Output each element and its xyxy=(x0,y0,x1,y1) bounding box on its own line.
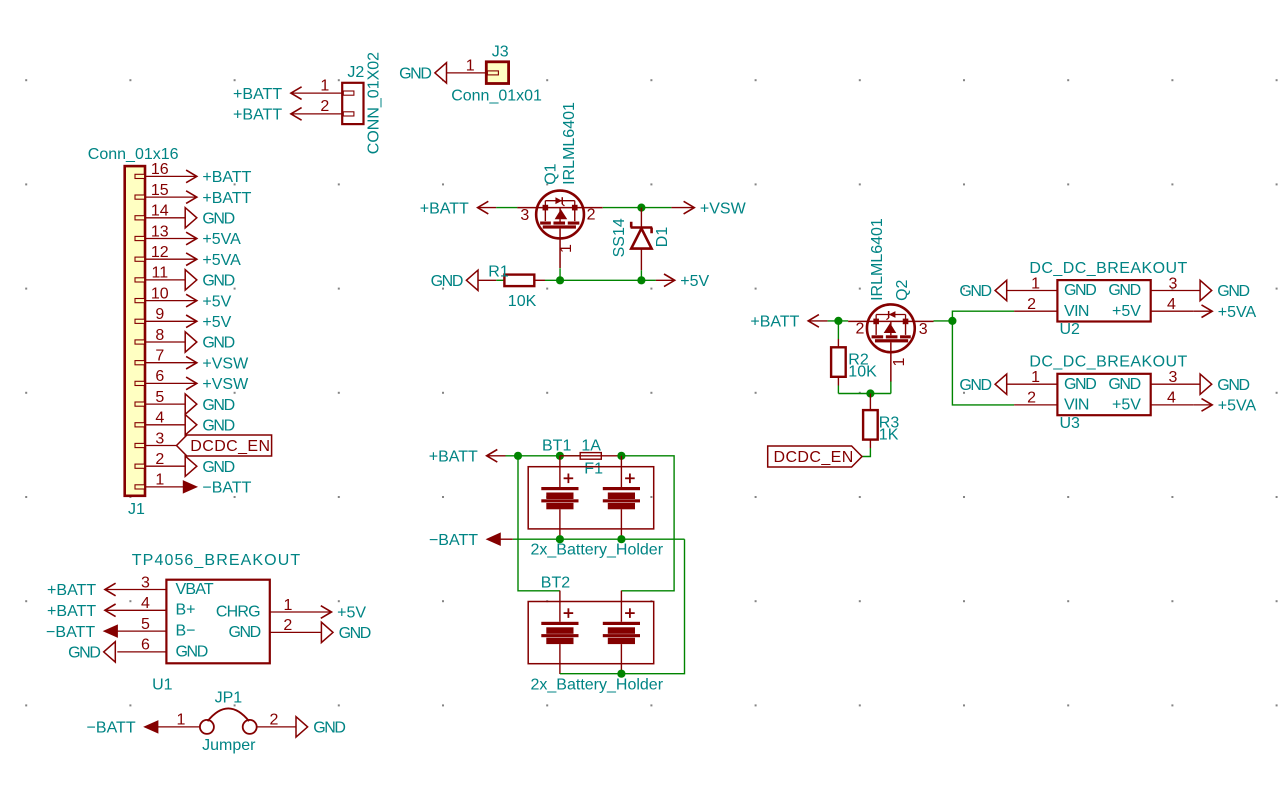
svg-text:GND: GND xyxy=(202,273,234,290)
svg-text:GND: GND xyxy=(339,625,371,642)
svg-text:SS14: SS14 xyxy=(611,218,628,257)
U3 pin 3 xyxy=(1151,369,1200,386)
hierarchical label GND at J1 pin 2 xyxy=(185,456,234,476)
hierarchical label +BATT at J1 pin 15 xyxy=(186,190,252,207)
J1 pin 13 xyxy=(135,223,197,240)
wire +BATT down to BT2 left cell xyxy=(518,456,560,591)
J1 pin 3 xyxy=(135,430,177,447)
svg-text:6: 6 xyxy=(141,637,150,654)
svg-text:J2: J2 xyxy=(347,64,364,81)
svg-text:D1: D1 xyxy=(654,227,671,248)
svg-text:IRLML6401: IRLML6401 xyxy=(561,102,578,185)
wire -BATT rail xyxy=(513,538,685,540)
connector J2 (CONN_01X02) xyxy=(342,83,363,124)
wire R1 to +5V rail xyxy=(545,279,656,281)
fuse F1 xyxy=(560,453,621,460)
svg-text:2: 2 xyxy=(283,617,292,634)
J1 pin 4 xyxy=(135,410,185,427)
hierarchical label GND at J3 xyxy=(399,63,446,83)
hierarchical label +5VA at J1 pin 12 xyxy=(186,252,241,269)
J1 pin 7 xyxy=(135,348,197,365)
hierarchical label GND at R1 xyxy=(431,270,497,290)
svg-text:+VSW: +VSW xyxy=(202,376,249,393)
svg-text:J1: J1 xyxy=(128,501,145,518)
hierarchical label GND at U3 pin 3 xyxy=(1200,374,1249,394)
svg-text:GND: GND xyxy=(228,624,260,641)
svg-text:1: 1 xyxy=(891,358,908,367)
svg-text:8: 8 xyxy=(155,327,164,344)
svg-text:+BATT: +BATT xyxy=(750,314,799,331)
battery holder BT1 xyxy=(528,456,654,539)
svg-text:VIN: VIN xyxy=(1064,397,1089,414)
svg-text:1: 1 xyxy=(558,244,575,253)
svg-text:VBAT: VBAT xyxy=(176,581,214,598)
hierarchical label +5VA at U2 pin 4 xyxy=(1193,304,1256,321)
U1 pin 3 xyxy=(105,574,166,591)
wire D1 anode down xyxy=(640,270,642,280)
svg-text:Conn_01x01: Conn_01x01 xyxy=(451,88,542,105)
hierarchical label +BATT at battery bank xyxy=(429,449,506,466)
svg-text:+BATT: +BATT xyxy=(202,190,251,207)
svg-text:IRLML6401: IRLML6401 xyxy=(869,218,886,301)
junction at D1 anode / +5V xyxy=(637,276,645,284)
svg-text:+5VA: +5VA xyxy=(1218,398,1257,415)
pin wire U2 VIN xyxy=(1014,310,1057,312)
U3 pin names xyxy=(1064,376,1141,414)
wire R2 to R3 junction xyxy=(838,393,890,395)
hierarchical label +BATT at Q1 source xyxy=(420,200,496,217)
svg-text:GND: GND xyxy=(1064,282,1096,299)
svg-text:+BATT: +BATT xyxy=(233,107,282,124)
U2 pin names xyxy=(1064,282,1141,320)
svg-text:5: 5 xyxy=(155,389,164,406)
svg-text:+VSW: +VSW xyxy=(202,355,249,372)
svg-text:CHRG: CHRG xyxy=(216,604,260,621)
wire GND label to R1 xyxy=(496,279,504,281)
resistor R1 xyxy=(504,275,545,287)
svg-text:3: 3 xyxy=(155,430,164,447)
svg-text:U2: U2 xyxy=(1060,321,1081,338)
svg-text:R1: R1 xyxy=(488,263,509,280)
svg-text:3: 3 xyxy=(520,207,529,224)
svg-text:11: 11 xyxy=(151,265,168,282)
svg-text:−BATT: −BATT xyxy=(46,624,95,641)
wire +BATT to Q1 xyxy=(496,207,517,209)
svg-text:1: 1 xyxy=(177,712,186,729)
svg-text:TP4056_BREAKOUT: TP4056_BREAKOUT xyxy=(132,552,301,569)
resistor R2 xyxy=(831,321,846,394)
wire -BATT rail to BT2 bottom xyxy=(560,539,685,674)
svg-text:GND: GND xyxy=(431,273,463,290)
svg-text:7: 7 xyxy=(155,348,164,365)
svg-text:3: 3 xyxy=(1168,275,1177,292)
svg-text:2: 2 xyxy=(1027,390,1036,407)
svg-text:13: 13 xyxy=(151,223,169,240)
svg-text:10: 10 xyxy=(151,285,169,302)
U1 pin 2 xyxy=(270,617,322,634)
svg-text:+5V: +5V xyxy=(1112,303,1141,320)
svg-text:1K: 1K xyxy=(879,426,899,443)
svg-text:2: 2 xyxy=(270,712,279,729)
hierarchical label GND at U1 pin 2 xyxy=(321,622,370,642)
svg-text:2x_Battery_Holder: 2x_Battery_Holder xyxy=(531,676,664,693)
hierarchical label −BATT at U1 pin 5 xyxy=(46,624,117,641)
svg-text:GND: GND xyxy=(202,335,234,352)
U1 pin names xyxy=(176,581,261,660)
svg-text:GND: GND xyxy=(202,211,234,228)
svg-text:2: 2 xyxy=(155,451,164,468)
svg-text:1: 1 xyxy=(1031,369,1040,386)
svg-text:GND: GND xyxy=(1108,282,1140,299)
svg-text:B+: B+ xyxy=(176,602,196,619)
svg-text:DC_DC_BREAKOUT: DC_DC_BREAKOUT xyxy=(1029,260,1187,277)
svg-text:5: 5 xyxy=(141,616,150,633)
svg-text:1: 1 xyxy=(466,57,475,74)
junction +BATT rail / BT1 left cell xyxy=(556,452,564,460)
hierarchical label +5V at U1 pin 1 xyxy=(321,605,367,622)
hierarchical label +BATT at U1 pin 4 xyxy=(47,603,116,620)
svg-text:1: 1 xyxy=(284,597,293,614)
hierarchical label +VSW at J1 pin 6 xyxy=(186,376,249,393)
svg-text:1: 1 xyxy=(155,472,164,489)
svg-text:CONN_01X02: CONN_01X02 xyxy=(366,52,383,154)
svg-text:GND: GND xyxy=(202,418,234,435)
charger U1 TP4056_BREAKOUT xyxy=(166,580,269,664)
svg-text:J3: J3 xyxy=(492,43,509,60)
hierarchical label GND at J1 pin 8 xyxy=(185,332,234,352)
junction +BATT rail / BT1 right cell xyxy=(617,452,625,460)
junction Q2 drain node xyxy=(948,317,956,325)
hierarchical label GND at U2 pin 3 xyxy=(1200,280,1249,300)
svg-text:DCDC_EN: DCDC_EN xyxy=(774,449,854,466)
svg-text:+VSW: +VSW xyxy=(700,200,747,217)
wire Q1 drain to +VSW node xyxy=(603,207,672,209)
U3 pin 1 xyxy=(1006,369,1058,386)
svg-text:+5V: +5V xyxy=(202,314,231,331)
wire Q2 gate down xyxy=(890,381,892,393)
junction -BATT rail / BT1 right cell xyxy=(617,535,625,543)
svg-text:GND: GND xyxy=(959,377,991,394)
pin wire U3 VIN xyxy=(1014,404,1057,406)
svg-text:6: 6 xyxy=(155,368,164,385)
battery holder BT2 xyxy=(528,591,654,674)
svg-text:+BATT: +BATT xyxy=(420,200,469,217)
J1 pin 10 xyxy=(135,285,197,302)
hierarchical label -BATT at JP1 pin 1 xyxy=(87,720,158,737)
svg-text:U3: U3 xyxy=(1060,415,1081,432)
svg-text:+BATT: +BATT xyxy=(233,86,282,103)
J1 pin 1 xyxy=(135,472,183,489)
junction -BATT rail / BT1 left cell xyxy=(556,535,564,543)
svg-text:+5VA: +5VA xyxy=(202,252,241,269)
svg-text:2x_Battery_Holder: 2x_Battery_Holder xyxy=(531,542,664,559)
svg-text:1: 1 xyxy=(320,77,329,94)
J1 pin 5 xyxy=(135,389,185,406)
svg-text:−BATT: −BATT xyxy=(87,720,136,737)
svg-text:2: 2 xyxy=(855,321,864,338)
svg-text:GND: GND xyxy=(313,720,345,737)
hierarchical label GND at U1 pin 6 xyxy=(68,642,115,662)
svg-text:BT2: BT2 xyxy=(541,574,570,591)
svg-text:2: 2 xyxy=(320,98,329,115)
svg-text:4: 4 xyxy=(141,595,150,612)
wire Q2 node down to U3 VIN xyxy=(952,321,1014,405)
J1 pin 15 xyxy=(135,182,197,199)
svg-text:+5V: +5V xyxy=(680,273,709,290)
JP1 pin 2 xyxy=(257,712,296,729)
U1 pin 1 xyxy=(270,597,332,614)
hierarchical label GND at JP1 pin 2 xyxy=(296,717,345,737)
svg-text:10K: 10K xyxy=(848,363,877,380)
jumper JP1 xyxy=(200,708,257,734)
svg-text:10K: 10K xyxy=(508,293,537,310)
hierarchical label +BATT at J1 pin 16 xyxy=(186,169,252,186)
svg-text:+5V: +5V xyxy=(202,293,231,310)
U1 pin 5 xyxy=(117,616,166,633)
U2 pin 3 xyxy=(1151,275,1200,292)
svg-text:DC_DC_BREAKOUT: DC_DC_BREAKOUT xyxy=(1029,354,1187,371)
connector J1 (Conn_01x16) xyxy=(125,166,145,496)
J1 pin 12 xyxy=(135,244,197,261)
hierarchical label +5V at J1 pin 10 xyxy=(186,293,232,310)
hierarchical label GND at U2 pin 1 xyxy=(959,280,1006,300)
svg-text:2: 2 xyxy=(587,207,596,224)
hierarchical label +BATT at J2 pin 2 xyxy=(233,107,302,124)
hierarchical label GND at J1 pin 11 xyxy=(185,270,234,290)
svg-text:9: 9 xyxy=(155,306,164,323)
svg-text:+BATT: +BATT xyxy=(202,169,251,186)
hierarchical label +5VA at J1 pin 13 xyxy=(186,231,241,248)
junction +BATT rail / BT2 feed xyxy=(514,452,522,460)
J1 pin 8 xyxy=(135,327,185,344)
hierarchical label GND at J1 pin 14 xyxy=(185,208,234,228)
hierarchical label +5V at D1 anode xyxy=(656,273,710,290)
global label DCDC_EN at J1 pin 3 xyxy=(177,435,272,456)
connector J3 (Conn_01x01) xyxy=(486,62,508,84)
svg-text:GND: GND xyxy=(1108,376,1140,393)
U2 pin 4 xyxy=(1151,296,1194,313)
wire +BATT to Q2 xyxy=(828,320,849,322)
svg-text:GND: GND xyxy=(399,66,431,83)
svg-text:−BATT: −BATT xyxy=(429,532,478,549)
svg-text:12: 12 xyxy=(151,244,169,261)
transistor Q1 IRLML6401 xyxy=(517,191,602,268)
J1 pin 9 xyxy=(135,306,197,323)
U1 pin 6 xyxy=(117,637,166,654)
U3 pin 4 xyxy=(1151,390,1194,407)
svg-text:4: 4 xyxy=(1167,296,1176,313)
hierarchical label +BATT at Q2 xyxy=(750,314,827,331)
svg-text:Jumper: Jumper xyxy=(202,737,256,754)
DC-DC converter U3 xyxy=(1057,374,1150,415)
svg-text:14: 14 xyxy=(151,203,169,220)
svg-text:DCDC_EN: DCDC_EN xyxy=(190,438,270,455)
svg-text:GND: GND xyxy=(68,645,100,662)
svg-text:1: 1 xyxy=(1031,275,1040,292)
hierarchical label -BATT at J1 pin 1 xyxy=(183,480,251,497)
transistor Q2 IRLML6401 xyxy=(848,304,933,381)
U2 pin 1 xyxy=(1006,275,1058,292)
hierarchical label -BATT at battery bank xyxy=(429,532,513,549)
wire Q2 node to U2 VIN xyxy=(952,311,1014,321)
J1 pin 11 xyxy=(135,265,185,282)
junction at D1 cathode / +VSW xyxy=(637,204,645,212)
svg-text:15: 15 xyxy=(151,182,169,199)
U1 pin 4 xyxy=(105,595,166,612)
svg-text:+5V: +5V xyxy=(337,605,366,622)
J1 pin 16 xyxy=(135,161,197,178)
svg-text:3: 3 xyxy=(919,321,928,338)
hierarchical label +VSW xyxy=(671,200,746,217)
diode D1 SS14 xyxy=(631,208,653,271)
wire +BATT rail to BT2 right cell xyxy=(621,456,674,591)
svg-text:16: 16 xyxy=(151,161,169,178)
junction +BATT / R2 xyxy=(834,317,842,325)
J2 pin 1 xyxy=(291,77,354,95)
hierarchical label GND at J1 pin 4 xyxy=(185,415,234,435)
svg-text:3: 3 xyxy=(141,574,150,591)
svg-text:GND: GND xyxy=(1217,377,1249,394)
hierarchical label +BATT at U1 pin 3 xyxy=(47,582,116,599)
svg-text:−BATT: −BATT xyxy=(202,480,251,497)
svg-text:GND: GND xyxy=(176,643,208,660)
svg-text:4: 4 xyxy=(1167,390,1176,407)
svg-text:JP1: JP1 xyxy=(215,690,243,707)
svg-text:GND: GND xyxy=(202,397,234,414)
svg-text:BT1: BT1 xyxy=(542,437,571,454)
svg-text:GND: GND xyxy=(1064,376,1096,393)
svg-text:Q1: Q1 xyxy=(542,163,559,184)
hierarchical label GND at U3 pin 1 xyxy=(959,374,1006,394)
svg-text:+BATT: +BATT xyxy=(429,449,478,466)
svg-text:Q2: Q2 xyxy=(894,279,911,300)
wire Q1 gate down xyxy=(559,268,561,280)
svg-text:VIN: VIN xyxy=(1064,303,1089,320)
svg-text:4: 4 xyxy=(155,410,164,427)
svg-text:U1: U1 xyxy=(152,676,173,693)
svg-text:GND: GND xyxy=(959,283,991,300)
J1 pin 2 xyxy=(135,451,185,468)
J1 pin 6 xyxy=(135,368,197,385)
svg-text:+5V: +5V xyxy=(1112,397,1141,414)
svg-text:+5VA: +5VA xyxy=(1218,304,1257,321)
wire +BATT rail xyxy=(506,455,581,457)
wire Q2 drain to U2/U3 xyxy=(934,320,953,322)
J2 pin 2 xyxy=(291,98,354,116)
DC-DC converter U2 xyxy=(1057,280,1150,321)
svg-text:B−: B− xyxy=(176,623,196,640)
hierarchical label +VSW at J1 pin 7 xyxy=(186,355,249,372)
hierarchical label GND at J1 pin 5 xyxy=(185,394,234,414)
svg-text:+BATT: +BATT xyxy=(47,603,96,620)
hierarchical label +5VA at U3 pin 4 xyxy=(1193,398,1256,415)
hierarchical label +BATT at J2 pin 1 xyxy=(233,86,302,103)
svg-text:GND: GND xyxy=(1217,283,1249,300)
junction at Q1 gate / R1 xyxy=(556,276,564,284)
global label DCDC_EN at R3 xyxy=(768,446,862,467)
svg-text:+5VA: +5VA xyxy=(202,231,241,248)
wire R3 to DCDC_EN xyxy=(862,448,870,457)
resistor R3 xyxy=(863,394,878,449)
svg-text:GND: GND xyxy=(202,459,234,476)
J3 pin 1 xyxy=(446,57,498,75)
svg-text:F1: F1 xyxy=(584,460,603,477)
J1 pin 14 xyxy=(135,203,185,220)
hierarchical label +5V at J1 pin 9 xyxy=(186,314,232,331)
JP1 pin 1 xyxy=(158,712,200,729)
svg-text:2: 2 xyxy=(1027,296,1036,313)
junction R2/R3/gate xyxy=(866,389,874,397)
svg-text:1A: 1A xyxy=(581,437,601,454)
svg-text:+BATT: +BATT xyxy=(47,582,96,599)
junction BT2 bottom xyxy=(617,670,625,678)
svg-text:3: 3 xyxy=(1168,369,1177,386)
